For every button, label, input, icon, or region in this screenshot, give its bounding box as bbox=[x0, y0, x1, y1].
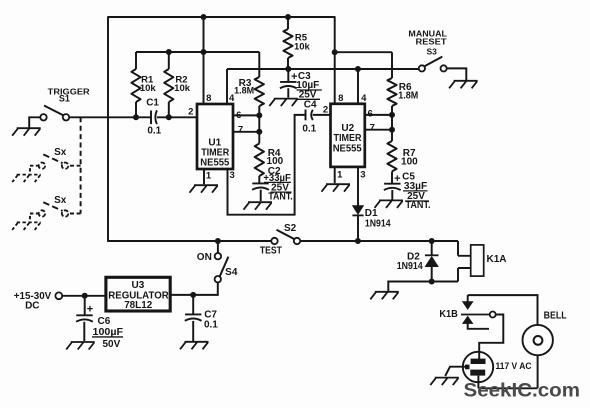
junction output / C7 bbox=[190, 292, 196, 298]
wire trigger to U1 pin 2 bbox=[157, 116, 197, 118]
svg-text:K1A: K1A bbox=[486, 254, 506, 265]
wire left V+ rail bbox=[107, 16, 109, 241]
svg-text:6: 6 bbox=[368, 108, 373, 119]
svg-text:10k: 10k bbox=[174, 83, 191, 94]
bell B1 bbox=[523, 311, 567, 356]
svg-text:1: 1 bbox=[206, 170, 212, 181]
input terminal +15-30V DC bbox=[14, 291, 106, 311]
svg-text:78L12: 78L12 bbox=[124, 300, 152, 311]
svg-text:10k: 10k bbox=[140, 83, 157, 94]
junction R2 top bbox=[166, 49, 172, 55]
junction reset / U2 pin 4 bbox=[355, 66, 361, 72]
svg-text:DC: DC bbox=[25, 301, 39, 312]
svg-text:3: 3 bbox=[360, 169, 365, 180]
svg-text:7: 7 bbox=[370, 122, 375, 133]
pin 3 label U2 bbox=[360, 169, 365, 180]
regulator U3 78L12 box bbox=[106, 277, 170, 311]
svg-text:S2: S2 bbox=[284, 223, 297, 234]
ground at S3 bbox=[447, 68, 478, 88]
junction U2 pin6 / R6-R7 bbox=[389, 112, 395, 118]
pin 4 label U1 bbox=[229, 93, 235, 104]
svg-text:10k: 10k bbox=[294, 41, 311, 52]
pin 6 label U2 bbox=[368, 108, 373, 119]
wire bottom feed (left) bbox=[107, 240, 272, 242]
wire dashed trigger bus bbox=[80, 117, 82, 213]
ground at U2 pin 1 bbox=[322, 167, 351, 192]
svg-text:+: + bbox=[87, 303, 93, 315]
switch S3 (MANUAL RESET) bbox=[408, 29, 447, 71]
resistor R5 bbox=[283, 17, 310, 69]
ground at C6 bbox=[66, 342, 95, 350]
svg-text:K1B: K1B bbox=[439, 309, 458, 320]
svg-text:Sx: Sx bbox=[54, 195, 67, 206]
svg-text:50V: 50V bbox=[103, 339, 121, 350]
ground at plug bbox=[430, 367, 465, 385]
ground at U1 pin 1 bbox=[190, 169, 219, 193]
pin 7 label U2 bbox=[370, 122, 375, 133]
svg-text:117 V AC: 117 V AC bbox=[496, 361, 532, 372]
wire U1 pin 3 to C4 bbox=[228, 115, 306, 215]
wire trigger line bbox=[69, 116, 151, 118]
wire U1 pin 7 bbox=[233, 131, 259, 133]
switch Sx (lower, phantom) bbox=[39, 195, 69, 217]
wire K1B common to plug bbox=[479, 315, 503, 353]
junction feed / D1 bbox=[355, 238, 361, 244]
svg-text:1N914: 1N914 bbox=[397, 261, 423, 272]
svg-text:RESET: RESET bbox=[416, 38, 447, 47]
svg-text:1.8M: 1.8M bbox=[398, 90, 418, 101]
svg-text:C6: C6 bbox=[98, 316, 111, 327]
junction pin6 / R3 bbox=[256, 112, 262, 118]
junction top rail / U1 pin 8 riser bbox=[201, 14, 207, 20]
wire C4 to U2 pin 2 bbox=[313, 114, 331, 116]
capacitor C2 bbox=[252, 166, 293, 203]
svg-text:7: 7 bbox=[238, 124, 243, 135]
resistor R4 bbox=[255, 132, 284, 184]
svg-text:2: 2 bbox=[323, 104, 328, 115]
wire U1 pin 6 bbox=[233, 114, 259, 116]
switch S2 (TEST) bbox=[260, 223, 300, 256]
svg-text:0.1: 0.1 bbox=[302, 124, 316, 135]
svg-text:TIMER: TIMER bbox=[334, 133, 363, 144]
svg-text:0.1: 0.1 bbox=[147, 126, 161, 137]
wire R1-R2 top rail bbox=[136, 51, 259, 53]
junction trigger / R2 bbox=[166, 114, 172, 120]
svg-text:0.1: 0.1 bbox=[204, 320, 218, 331]
wire U2 pin 6 bbox=[365, 114, 392, 116]
svg-text:Sx: Sx bbox=[54, 147, 67, 158]
resistor R3 bbox=[234, 52, 264, 115]
svg-text:100: 100 bbox=[401, 157, 418, 168]
svg-text:S1: S1 bbox=[59, 93, 70, 103]
wire K1B to bell top bbox=[468, 295, 538, 325]
relay coil K1A bbox=[458, 241, 507, 282]
svg-text:TEST: TEST bbox=[260, 246, 282, 257]
capacitor C4 bbox=[302, 99, 317, 134]
svg-text:8: 8 bbox=[206, 93, 211, 104]
diode D2 1N914 bbox=[397, 241, 439, 282]
wire dashed stub to Sx1 bbox=[68, 165, 81, 167]
ground at C3 bbox=[269, 99, 298, 107]
resistor R2 bbox=[164, 52, 191, 117]
capacitor C5 bbox=[384, 172, 431, 212]
pin 2 label U1 bbox=[188, 106, 193, 117]
junction top rail / R5 top bbox=[285, 14, 291, 20]
diode D1 1N914 bbox=[352, 167, 391, 241]
junction U2 pin8 riser / R6 feed bbox=[332, 49, 338, 55]
junction feed / S4 bbox=[215, 238, 221, 244]
ground at C5 bbox=[375, 200, 404, 208]
junction input / C6 bbox=[82, 293, 88, 299]
pin 1 label U1 bbox=[206, 170, 212, 181]
wire U2 pin 4 riser bbox=[357, 69, 359, 104]
svg-text:3: 3 bbox=[230, 170, 235, 181]
pin 3 label U1 bbox=[230, 170, 235, 181]
svg-text:NE555: NE555 bbox=[200, 157, 229, 168]
junction pin8 riser / R1-R2 rail bbox=[201, 49, 207, 55]
svg-text:BELL: BELL bbox=[544, 311, 567, 322]
svg-text:TANT.: TANT. bbox=[268, 191, 293, 202]
plug P1 117V AC bbox=[463, 352, 532, 389]
relay contact K1B bbox=[439, 295, 495, 329]
svg-text:8: 8 bbox=[338, 93, 343, 104]
resistor R6 bbox=[387, 52, 418, 115]
junction U2 pin7 / R7 bbox=[389, 127, 395, 133]
svg-text:SeekIC.com: SeekIC.com bbox=[464, 380, 581, 402]
op-amp U2 (555 timer) box bbox=[331, 104, 365, 167]
pin 2 label U2 bbox=[323, 104, 328, 115]
svg-text:NE555: NE555 bbox=[333, 144, 362, 155]
junction K1A return / D2 bbox=[429, 279, 435, 285]
pin 8 label U2 bbox=[338, 93, 343, 104]
ground at C7 bbox=[180, 342, 209, 350]
svg-text:TANT.: TANT. bbox=[406, 200, 431, 211]
pin 4 label U2 bbox=[361, 93, 367, 104]
wire U1 pin 8 riser bbox=[203, 17, 205, 104]
ground at Sx upper (dashed) bbox=[12, 166, 41, 182]
wire K1A return bbox=[388, 282, 458, 292]
svg-text:+: + bbox=[394, 173, 400, 185]
capacitor C1 bbox=[146, 98, 161, 137]
pin 8 label U1 bbox=[206, 93, 211, 104]
capacitor C3 bbox=[280, 69, 322, 101]
capacitor C7 bbox=[185, 295, 218, 341]
resistor R7 bbox=[387, 130, 418, 184]
svg-text:1.8M: 1.8M bbox=[234, 85, 254, 96]
watermark SeekIC.com bbox=[464, 380, 581, 402]
ground at C2 bbox=[244, 202, 273, 210]
wire bell bottom bbox=[478, 355, 537, 388]
pin 1 label U2 bbox=[337, 169, 343, 180]
svg-text:2: 2 bbox=[188, 106, 193, 117]
wire pin6-pin7 link U2 bbox=[391, 115, 393, 130]
svg-text:ON: ON bbox=[197, 252, 212, 263]
svg-text:4: 4 bbox=[361, 93, 367, 104]
junction feed / D2-K1A bbox=[429, 238, 435, 244]
svg-text:1N914: 1N914 bbox=[365, 218, 391, 229]
ground at S1 bbox=[12, 117, 41, 135]
switch S1 (TRIGGER) bbox=[40, 87, 90, 121]
wire pin6-pin7 link bbox=[258, 115, 260, 131]
switch S4 (ON) bbox=[197, 241, 238, 282]
op-amp U1 (555 timer) box bbox=[197, 104, 233, 169]
svg-text:C1: C1 bbox=[146, 98, 159, 109]
wire V+ top rail bbox=[108, 16, 335, 18]
junction reset / C3-R5 bbox=[285, 66, 291, 72]
capacitor C6 bbox=[76, 296, 123, 350]
svg-text:1: 1 bbox=[337, 169, 343, 180]
wire reset line to S3 bbox=[227, 68, 419, 70]
wire U2 pin 7 bbox=[365, 129, 392, 131]
wire S4 to regulator output bbox=[170, 282, 218, 295]
ground at Sx lower (dashed) bbox=[12, 214, 41, 230]
pin 7 label U1 bbox=[238, 124, 243, 135]
junction pin7 / R4 bbox=[256, 129, 262, 135]
wire bottom feed (right) bbox=[300, 240, 458, 242]
svg-text:S4: S4 bbox=[225, 267, 238, 278]
ground at K1A return bbox=[370, 292, 399, 300]
pin 6 label U1 bbox=[236, 110, 241, 121]
resistor R1 bbox=[131, 52, 156, 117]
switch Sx (upper, phantom) bbox=[39, 147, 69, 169]
wire U2 pin 8 riser bbox=[334, 16, 336, 104]
wire U1 pin 4 riser bbox=[226, 69, 228, 104]
svg-text:C4: C4 bbox=[304, 99, 317, 110]
wire V+ feed to R6 bbox=[335, 51, 392, 53]
junction trigger / R1 bbox=[133, 114, 139, 120]
svg-text:S3: S3 bbox=[426, 46, 437, 56]
wire dashed stub to Sx2 bbox=[68, 213, 81, 215]
